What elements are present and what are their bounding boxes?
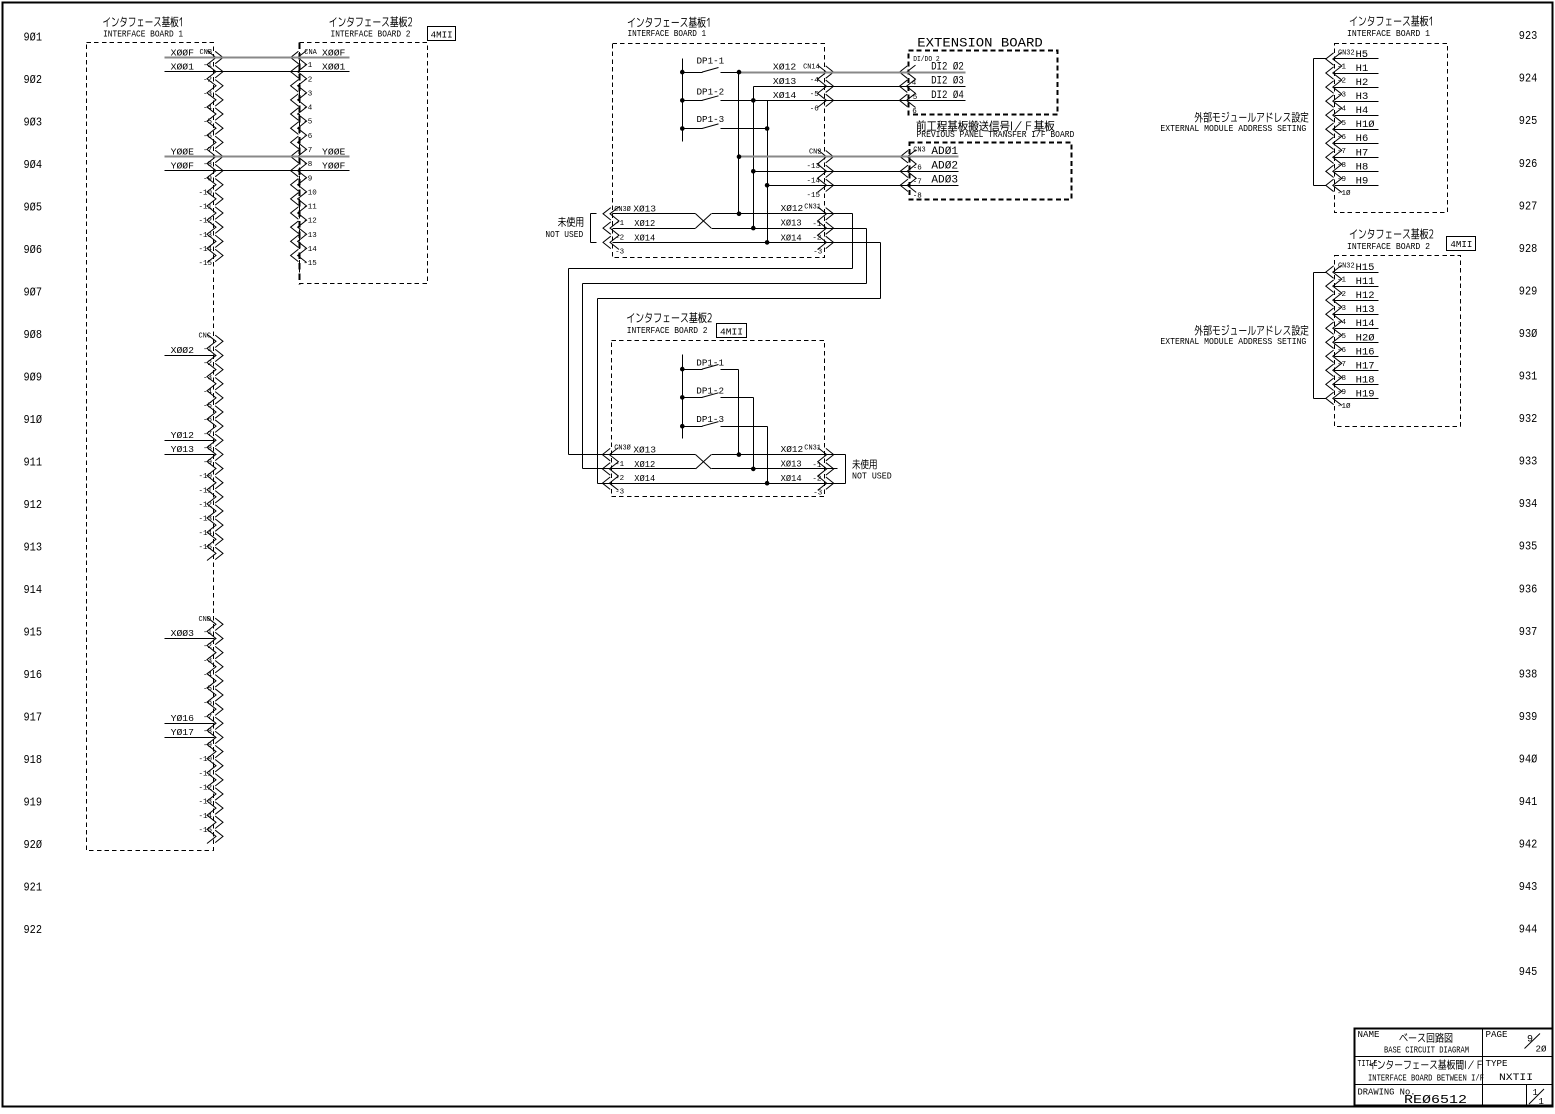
svg-text:-1: -1 — [812, 221, 822, 229]
svg-text:H5: H5 — [1356, 50, 1369, 61]
svg-text:-2: -2 — [812, 234, 821, 242]
svg-text:-8: -8 — [1337, 162, 1346, 170]
svg-text:935: 935 — [1519, 541, 1538, 554]
svg-text:1: 1 — [1539, 1097, 1544, 1107]
svg-text:-4: -4 — [810, 77, 820, 85]
svg-text:937: 937 — [1519, 626, 1538, 639]
wire H18 (right board 2 CN32) — [1335, 384, 1379, 386]
svg-text:-13: -13 — [806, 163, 820, 171]
svg-text:-3: -3 — [1337, 92, 1347, 100]
svg-text:9Ø9: 9Ø9 — [24, 371, 43, 384]
wire H2 (right board 1 CN32) — [1335, 87, 1379, 89]
svg-text:939: 939 — [1519, 711, 1538, 724]
svg-text:H14: H14 — [1356, 319, 1375, 330]
svg-text:YØ13: YØ13 — [171, 445, 194, 455]
connector CNA (left board 2, 15 pins) — [298, 51, 307, 263]
label ベース回路図 — [1399, 1033, 1452, 1043]
svg-text:XØ12: XØ12 — [634, 219, 655, 229]
svg-text:-3: -3 — [203, 90, 213, 98]
svg-text:H2Ø: H2Ø — [1356, 332, 1375, 344]
svg-text:CN31: CN31 — [804, 203, 821, 211]
svg-text:93Ø: 93Ø — [1519, 328, 1538, 341]
pin labels CN30 -1 -2 -3 (middle board 2) — [615, 461, 625, 497]
svg-text:936: 936 — [1519, 583, 1538, 596]
svg-text:-10: -10 — [198, 189, 212, 197]
svg-text:-15: -15 — [198, 827, 212, 835]
svg-text:INTERFACE BOARD 1: INTERFACE BOARD 1 — [103, 28, 183, 39]
svg-text:-15: -15 — [806, 192, 820, 200]
svg-text:XØ14: XØ14 — [634, 474, 655, 484]
svg-text:-10: -10 — [198, 473, 212, 481]
wire H15 (right board 2 CN32) — [1335, 272, 1379, 274]
svg-text:BASE CIRCUIT DIAGRAM: BASE CIRCUIT DIAGRAM — [1384, 1044, 1469, 1055]
svg-text:-6: -6 — [203, 700, 213, 708]
pin labels CN31 -1 -2 -3 (middle board 2) — [812, 462, 822, 498]
wire X014 row3 straight segment (middle board 2) — [612, 483, 838, 485]
svg-text:EXTERNAL MODULE ADDRESS SETING: EXTERNAL MODULE ADDRESS SETING — [1160, 336, 1306, 347]
switch DP1-1 (middle board 2) — [683, 369, 703, 371]
svg-text:EXTERNAL MODULE ADDRESS SETING: EXTERNAL MODULE ADDRESS SETING — [1160, 123, 1306, 134]
connector CND (left board 1, 16 pins) — [207, 617, 216, 843]
svg-text:9Ø8: 9Ø8 — [24, 329, 43, 342]
svg-text:H1Ø: H1Ø — [1356, 119, 1375, 131]
svg-text:CN31: CN31 — [804, 444, 821, 452]
svg-text:-2: -2 — [1337, 78, 1346, 86]
svg-text:-12: -12 — [198, 218, 212, 226]
wire X012 CN30-row2 left segment (middle board 1) — [613, 228, 696, 230]
svg-text:-14: -14 — [198, 813, 212, 821]
svg-text:-13: -13 — [198, 799, 212, 807]
wire X013 CN30-row1 left segment (middle board 2) — [612, 454, 696, 456]
svg-text:-4: -4 — [203, 105, 213, 113]
svg-text:-4: -4 — [1337, 319, 1347, 327]
svg-text:CN14: CN14 — [803, 63, 820, 71]
svg-text:942: 942 — [1519, 839, 1538, 852]
svg-text:CND: CND — [199, 616, 212, 624]
svg-text:931: 931 — [1519, 371, 1538, 384]
svg-text:-12: -12 — [198, 502, 212, 510]
svg-text:-1: -1 — [615, 461, 625, 469]
pin labels CN31 -1 -2 -3 — [812, 221, 822, 257]
svg-text:-11: -11 — [198, 487, 212, 495]
svg-text:9Ø1: 9Ø1 — [24, 31, 43, 44]
wire X013 CN31-row2 segment (middle board 2) — [712, 468, 838, 470]
thick dashed connector edge CNA (left board 2 west edge) — [298, 43, 300, 285]
connector CN31 (middle board 2, 3 pins) — [818, 448, 827, 491]
svg-text:-7: -7 — [1337, 148, 1346, 156]
switch DP1-2 (middle board 1) — [683, 100, 703, 102]
wire loop X012 (board1 CN31-1 to board2 CN30-1) — [825, 213, 853, 215]
svg-text:-7: -7 — [203, 714, 212, 722]
svg-text:912: 912 — [24, 499, 43, 512]
svg-text:XØØ3: XØØ3 — [171, 629, 194, 639]
svg-text:H15: H15 — [1356, 263, 1375, 274]
svg-text:-13: -13 — [198, 516, 212, 524]
wire AD03 (CN2 to CN3) — [825, 185, 959, 187]
svg-text:NAME: NAME — [1358, 1030, 1380, 1040]
wire X012 CN31-row1 segment (middle board 2) — [712, 454, 838, 456]
svg-text:DP1-3: DP1-3 — [696, 415, 724, 425]
svg-text:-1: -1 — [203, 62, 213, 70]
svg-text:6: 6 — [912, 108, 917, 116]
svg-text:925: 925 — [1519, 115, 1538, 128]
wire H13 (right board 2 CN32) — [1335, 314, 1379, 316]
title block frame — [1355, 1029, 1553, 1106]
svg-text:-3: -3 — [1337, 305, 1347, 313]
connector CN32 (right board 1, 10 pins) — [1333, 52, 1342, 192]
svg-text:H19: H19 — [1356, 389, 1375, 400]
svg-text:-11: -11 — [198, 770, 212, 778]
svg-text:9Ø3: 9Ø3 — [24, 116, 43, 129]
wire X014 CN30-CN31 row3 straight to loop (middle board 1) — [613, 242, 881, 244]
wire H17 (right board 2 CN32) — [1335, 370, 1379, 372]
svg-text:DP1-2: DP1-2 — [697, 88, 725, 98]
svg-text:TITLE: TITLE — [1358, 1059, 1378, 1069]
switch DP1-1 (middle board 1) — [683, 72, 703, 74]
svg-text:-2: -2 — [615, 475, 624, 483]
wire X001 (CNB-2 to CNA-2) — [165, 71, 215, 73]
svg-text:XØ12: XØ12 — [773, 63, 796, 73]
svg-text:9Ø5: 9Ø5 — [24, 201, 43, 214]
svg-text:XØ14: XØ14 — [634, 233, 655, 243]
wire H7 (right board 1 CN32) — [1335, 157, 1379, 159]
svg-text:-3: -3 — [203, 374, 213, 382]
svg-text:-4: -4 — [303, 105, 313, 113]
svg-text:INTERFACE BOARD BETWEEN I/F: INTERFACE BOARD BETWEEN I/F — [1368, 1074, 1484, 1084]
svg-text:-9: -9 — [203, 459, 212, 467]
svg-text:-3: -3 — [303, 90, 313, 98]
connector CNB (left board 1, 15 pins) — [207, 51, 216, 263]
svg-text:-6: -6 — [1337, 134, 1347, 142]
wire CN2-14 (middle board 1) — [754, 171, 825, 173]
wire H5 (right board 1 CN32) — [1335, 58, 1379, 60]
wire H14 (right board 2 CN32) — [1335, 328, 1379, 330]
wire DI2 03 (CN14 to extension board) — [825, 86, 966, 88]
wire CN2-15 (middle board 1) — [768, 185, 825, 187]
wire Y013 (CNC-8) — [165, 454, 215, 456]
address setting bus bracket (right board 1) — [1314, 58, 1327, 60]
pin labels CN32 -1..-10 (right board 1) — [1337, 64, 1351, 198]
bus wire for DIP switches DP1 (middle board 1) — [682, 59, 684, 142]
svg-text:XØ13: XØ13 — [781, 219, 802, 229]
wire X00F (CNB-1 to CNA-1) — [165, 57, 215, 59]
wire H11 (right board 2 CN32) — [1335, 286, 1379, 288]
svg-text:-2: -2 — [203, 643, 212, 651]
wire AD02 (CN2 to CN3) — [825, 171, 959, 173]
board outline インタフェース基板2 INTERFACE BOARD 2 (right) — [1335, 256, 1461, 427]
svg-text:INTERFACE BOARD 1: INTERFACE BOARD 1 — [1347, 28, 1430, 39]
svg-text:CNB: CNB — [200, 49, 213, 57]
svg-text:DP1-1: DP1-1 — [696, 358, 724, 368]
svg-text:91Ø: 91Ø — [24, 414, 43, 427]
svg-text:H3: H3 — [1356, 92, 1369, 103]
svg-text:-14: -14 — [303, 246, 317, 254]
pin labels CN14 -4 -5 -6 — [810, 77, 820, 114]
svg-text:CNA: CNA — [304, 49, 317, 57]
connector CN3 (previous panel board, 3 pins) — [907, 150, 916, 193]
bus wire for DIP switches DP1 (middle board 2) — [682, 355, 684, 439]
svg-text:-5: -5 — [303, 119, 313, 127]
svg-text:-11: -11 — [198, 204, 212, 212]
svg-text:-2: -2 — [203, 360, 212, 368]
svg-text:ADØ1: ADØ1 — [931, 146, 958, 158]
svg-text:-8: -8 — [203, 445, 212, 453]
label box 4MII (left board 2 model tag) — [428, 27, 456, 41]
svg-text:-1: -1 — [203, 629, 213, 637]
label 未使用 (middle board 2) — [852, 459, 876, 469]
label インタフェース基板1 (left board 1 title) — [103, 16, 182, 27]
svg-text:-7: -7 — [1337, 361, 1346, 369]
svg-text:H18: H18 — [1356, 375, 1375, 386]
pin labels CNB -1..-15 — [198, 62, 212, 268]
svg-text:INTERFACE BOARD 2: INTERFACE BOARD 2 — [1347, 241, 1430, 252]
svg-text:-1: -1 — [1337, 64, 1347, 72]
svg-text:933: 933 — [1519, 456, 1538, 469]
wire X012 CN31-row1 segment to loop (middle board 1) — [712, 213, 853, 215]
svg-text:-14: -14 — [806, 178, 820, 186]
board outline インタフェース基板1 INTERFACE BOARD 1 (right) — [1335, 44, 1448, 213]
wire X013 (to CN14, middle board 1) — [754, 86, 825, 88]
board outline EXTENSION BOARD — [909, 51, 1058, 115]
wire H19 (right board 2 CN32) — [1335, 398, 1379, 400]
grid row labels right column 923-945 — [1519, 30, 1538, 979]
svg-text:YØØF: YØØF — [171, 161, 194, 171]
svg-text:917: 917 — [24, 712, 43, 725]
svg-text:-9: -9 — [1337, 176, 1346, 184]
svg-text:-11: -11 — [303, 204, 317, 212]
address setting bus bracket (right board 2) — [1314, 272, 1327, 274]
svg-text:-15: -15 — [198, 544, 212, 552]
svg-text:H13: H13 — [1356, 305, 1375, 316]
svg-text:-5: -5 — [810, 91, 820, 99]
label インタフェース基板1 (right board 1 title) — [1350, 15, 1432, 26]
wire H10 (right board 1 CN32) — [1335, 129, 1379, 131]
svg-text:-1: -1 — [615, 220, 625, 228]
svg-text:H2: H2 — [1356, 78, 1369, 89]
svg-text:H6: H6 — [1356, 134, 1369, 145]
wire riser X013 net (middle board 1) — [753, 87, 755, 229]
wire H8 (right board 1 CN32) — [1335, 171, 1379, 173]
wire loop X013 (board1 CN31-2 to board2 CN30-2) — [825, 228, 867, 230]
svg-text:CN3Ø: CN3Ø — [614, 443, 631, 452]
svg-text:-9: -9 — [203, 742, 212, 750]
label インタフェース基板1 (middle board 1 title) — [628, 17, 710, 28]
svg-text:-1: -1 — [303, 62, 313, 70]
svg-text:-7: -7 — [203, 431, 212, 439]
svg-text:915: 915 — [24, 627, 43, 640]
svg-text:-1: -1 — [1337, 277, 1347, 285]
board outline インタフェース基板1 INTERFACE BOARD 1 (middle) — [613, 44, 825, 258]
connector CN14 (middle board 1, 3 pins) — [818, 65, 827, 107]
svg-text:YØ16: YØ16 — [171, 714, 194, 724]
svg-text:924: 924 — [1519, 73, 1538, 86]
svg-text:XØ14: XØ14 — [781, 233, 802, 243]
svg-text:YØØE: YØØE — [322, 147, 345, 157]
label box 4MII (right board 2 model tag) — [1447, 237, 1476, 251]
svg-text:-6: -6 — [1337, 347, 1347, 355]
svg-text:932: 932 — [1519, 413, 1538, 426]
connector CN32 (right board 2, 10 pins) — [1333, 265, 1342, 405]
svg-text:ADØ2: ADØ2 — [931, 161, 958, 173]
svg-text:XØØ2: XØØ2 — [171, 346, 194, 356]
wire Y00F (CNB-9 to CNA-9) — [165, 170, 215, 172]
pin labels CN3 -6 -7 -8 — [913, 164, 923, 200]
symbol not-used bracket (middle board 1 CN30) — [591, 213, 597, 215]
svg-text:INTERFACE BOARD 2: INTERFACE BOARD 2 — [331, 28, 411, 39]
svg-text:XØØF: XØØF — [171, 48, 194, 58]
svg-text:922: 922 — [24, 924, 43, 937]
svg-text:INTERFACE BOARD 1: INTERFACE BOARD 1 — [628, 28, 707, 39]
switch DP1-2 (middle board 2) — [683, 397, 703, 399]
svg-text:CNC: CNC — [199, 333, 212, 341]
svg-text:9Ø6: 9Ø6 — [24, 244, 43, 257]
svg-text:YØØE: YØØE — [171, 147, 194, 157]
svg-text:-15: -15 — [198, 260, 212, 268]
wire DP1-3 out (middle board 1) — [721, 128, 768, 130]
wire X002 (CNC-1) — [165, 355, 215, 357]
svg-text:-15: -15 — [303, 260, 317, 268]
svg-text:-3: -3 — [615, 248, 625, 256]
svg-text:-14: -14 — [198, 530, 212, 538]
pin labels CN30 -1 -2 -3 — [615, 220, 625, 256]
label 外部モジュールアドレス設定 (right board 2) — [1195, 325, 1309, 336]
svg-text:934: 934 — [1519, 498, 1538, 511]
svg-text:4MII: 4MII — [1450, 239, 1472, 250]
svg-text:-5: -5 — [203, 686, 213, 694]
pin labels 4 5 6 (extension board) — [912, 80, 918, 116]
svg-text:-4: -4 — [203, 671, 213, 679]
svg-text:DP1-2: DP1-2 — [696, 387, 724, 397]
wire Y016 (CND-7) — [165, 723, 215, 725]
label インタフェース基板2 (left board 2 title) — [330, 16, 412, 27]
svg-text:921: 921 — [24, 882, 43, 895]
wire X014 / DP1-2 out (to CN14, middle board 1) — [721, 100, 825, 102]
svg-text:914: 914 — [24, 584, 43, 597]
svg-text:-5: -5 — [1337, 120, 1347, 128]
wire H6 (right board 1 CN32) — [1335, 143, 1379, 145]
svg-text:-8: -8 — [203, 161, 212, 169]
svg-text:943: 943 — [1519, 881, 1538, 894]
svg-text:-1: -1 — [812, 462, 822, 470]
svg-text:-4: -4 — [203, 388, 213, 396]
svg-text:NOT USED: NOT USED — [852, 472, 892, 482]
svg-text:XØ14: XØ14 — [781, 474, 802, 484]
wire H20 (right board 2 CN32) — [1335, 342, 1379, 344]
svg-text:-8: -8 — [203, 728, 212, 736]
svg-text:9Ø7: 9Ø7 — [24, 286, 43, 299]
svg-text:927: 927 — [1519, 200, 1538, 213]
connector CN30 (middle board 1, 3 pins) — [610, 207, 619, 250]
svg-text:ADØ3: ADØ3 — [931, 175, 958, 187]
svg-text:-7: -7 — [203, 147, 212, 155]
svg-text:H1: H1 — [1356, 64, 1369, 75]
svg-text:-4: -4 — [1337, 106, 1347, 114]
wire riser X014 net (middle board 1) — [767, 101, 769, 243]
svg-text:9Ø4: 9Ø4 — [24, 159, 43, 172]
svg-text:YØ12: YØ12 — [171, 431, 194, 441]
wire X003 (CND-1) — [165, 638, 215, 640]
svg-text:CN2: CN2 — [809, 149, 822, 157]
svg-text:-2: -2 — [203, 76, 212, 84]
svg-text:-2: -2 — [615, 235, 624, 243]
crossover wires X012/X013 (middle board 1) — [696, 214, 712, 228]
svg-text:928: 928 — [1519, 243, 1538, 256]
svg-text:XØ14: XØ14 — [773, 91, 796, 101]
switch DP1-3 (middle board 2) — [683, 426, 703, 428]
svg-text:-3: -3 — [813, 249, 823, 257]
svg-text:XØ13: XØ13 — [773, 77, 796, 87]
svg-text:944: 944 — [1519, 924, 1538, 937]
wire DI2 02 (CN14 to extension board) — [825, 72, 966, 74]
svg-text:REØ6512: REØ6512 — [1404, 1093, 1467, 1107]
pin labels CNC -1..-15 — [198, 346, 212, 552]
svg-text:DI2 Ø3: DI2 Ø3 — [931, 76, 964, 88]
svg-text:919: 919 — [24, 797, 43, 810]
label 未使用 (middle board 1) — [558, 217, 583, 227]
svg-text:-10: -10 — [198, 756, 212, 764]
svg-text:-2: -2 — [812, 475, 821, 483]
wire riser X012 net (middle board 1) — [738, 73, 740, 214]
grid row labels left column 901-922 — [24, 31, 43, 937]
svg-text:-12: -12 — [198, 785, 212, 793]
wire X013 CN31-row2 segment to loop (middle board 1) — [712, 228, 867, 230]
svg-text:94Ø: 94Ø — [1519, 753, 1538, 766]
svg-text:-10: -10 — [303, 189, 317, 197]
wire Y017 (CND-8) — [165, 737, 215, 739]
svg-text:929: 929 — [1519, 285, 1538, 298]
svg-text:H16: H16 — [1356, 347, 1375, 358]
connector CN31 (middle board 1, 3 pins) — [818, 207, 827, 250]
svg-text:DP1-1: DP1-1 — [697, 57, 725, 67]
svg-text:-9: -9 — [1337, 389, 1346, 397]
svg-text:-3: -3 — [813, 490, 823, 498]
wire AD01 (CN2 to CN3) — [825, 156, 959, 158]
svg-text:-13: -13 — [303, 232, 317, 240]
wire DI2 04 (CN14 to extension board) — [825, 100, 966, 102]
wire DP1-1 out riser (middle board 2) — [721, 369, 739, 371]
svg-text:-8: -8 — [913, 193, 922, 201]
svg-text:916: 916 — [24, 669, 43, 682]
svg-text:YØØF: YØØF — [322, 161, 345, 171]
svg-text:2Ø: 2Ø — [1536, 1045, 1548, 1055]
label インタフェース基板2 (middle board 2 title) — [627, 312, 712, 323]
svg-text:-2: -2 — [303, 76, 312, 84]
svg-text:DP1-3: DP1-3 — [697, 115, 725, 125]
svg-text:-1Ø: -1Ø — [1337, 402, 1351, 411]
pin labels CND -1..-15 — [198, 629, 212, 835]
svg-text:-8: -8 — [303, 161, 312, 169]
pin labels CNA -1..-15 — [303, 62, 317, 268]
board outline インタフェース基板2 INTERFACE BOARD 2 (left) — [300, 43, 428, 284]
svg-text:XØ12: XØ12 — [781, 204, 804, 214]
wire DP1-2 out riser (middle board 2) — [721, 397, 754, 399]
svg-text:H9: H9 — [1356, 176, 1369, 187]
svg-text:PAGE: PAGE — [1486, 1030, 1508, 1040]
symbol not-used bracket (middle board 2 CN31) — [838, 454, 846, 456]
svg-text:9Ø2: 9Ø2 — [24, 74, 43, 87]
svg-text:-6: -6 — [303, 133, 313, 141]
svg-text:-6: -6 — [203, 133, 213, 141]
svg-text:TYPE: TYPE — [1486, 1059, 1508, 1069]
svg-text:YØ17: YØ17 — [171, 728, 194, 738]
svg-text:938: 938 — [1519, 668, 1538, 681]
wire H12 (right board 2 CN32) — [1335, 300, 1379, 302]
svg-text:-5: -5 — [203, 119, 213, 127]
crossover wires X012/X013 (middle board 2) — [696, 455, 712, 469]
svg-text:CN3: CN3 — [913, 146, 926, 154]
connector CN30 (middle board 2, 3 pins) — [609, 448, 618, 491]
wire loop X014 (board1 CN31-3 to board2 CN30-3) — [825, 242, 881, 244]
